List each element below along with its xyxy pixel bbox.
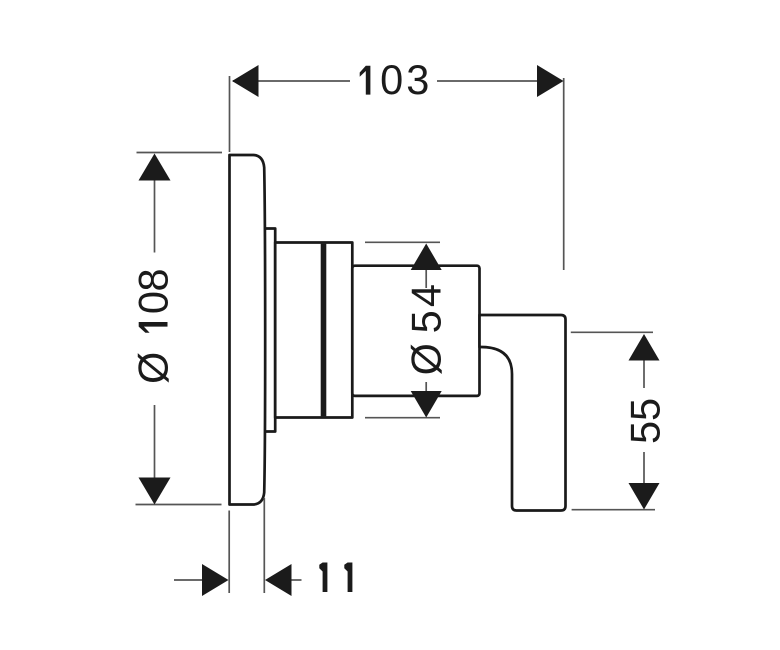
svg-text:Ø: Ø xyxy=(403,343,450,375)
svg-text:55: 55 xyxy=(622,398,669,444)
svg-text:Ø: Ø xyxy=(130,352,177,384)
svg-text:08: 08 xyxy=(130,269,177,314)
svg-text:03: 03 xyxy=(380,56,432,103)
svg-text:54: 54 xyxy=(403,281,450,334)
